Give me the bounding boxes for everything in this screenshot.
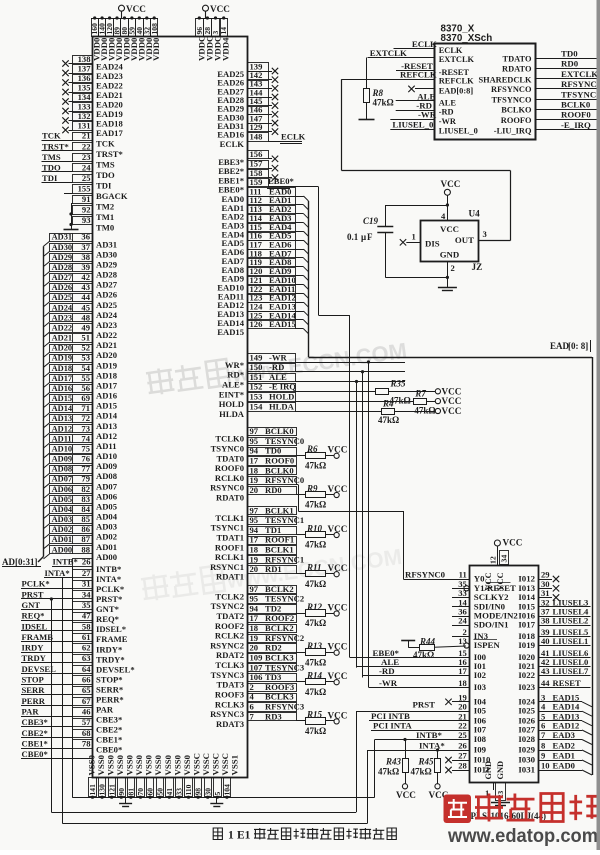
svg-text:-E IRQ: -E IRQ <box>269 382 296 392</box>
svg-text:AD03: AD03 <box>52 515 72 524</box>
U4 pin 1 with no-connect <box>406 242 420 244</box>
svg-text:ROOF1: ROOF1 <box>265 535 294 545</box>
pin 30 box <box>205 778 212 797</box>
svg-text:17: 17 <box>250 456 259 466</box>
svg-text:47k: 47k <box>373 98 387 108</box>
TD0 wire to R6 <box>296 455 306 457</box>
pin 109 BCLK3 <box>248 654 297 663</box>
pin 81 stub <box>130 796 132 797</box>
svg-text:EAD: EAD <box>550 341 570 351</box>
-RD vertical to ISPLSI <box>362 372 364 678</box>
pin 91 TM2 <box>73 196 93 204</box>
svg-text:PCI INTA: PCI INTA <box>373 720 412 730</box>
svg-text:95: 95 <box>250 594 259 604</box>
pin 70 box <box>137 778 145 797</box>
AD08 bus entry <box>44 473 50 478</box>
pin 41 box <box>166 778 174 797</box>
pin 113 EAD2 <box>248 206 296 214</box>
pin 64 DEVSEL* <box>73 666 93 674</box>
svg-text:TSYNC0: TSYNC0 <box>211 444 244 454</box>
svg-text:AD08: AD08 <box>52 465 72 474</box>
svg-text:TDAT1: TDAT1 <box>216 533 244 543</box>
AD03 bus entry <box>44 524 50 529</box>
svg-text:47k: 47k <box>305 687 319 697</box>
svg-text:EAD14: EAD14 <box>553 702 580 712</box>
svg-text:I017: I017 <box>518 620 535 630</box>
svg-text:AD28: AD28 <box>96 270 118 280</box>
pin 95 TESYNC0 <box>248 438 297 446</box>
svg-text:RD3: RD3 <box>265 711 282 721</box>
svg-text:78: 78 <box>82 738 91 748</box>
pin 69 AD15 <box>50 395 93 403</box>
resistor R15 <box>306 718 326 725</box>
svg-text:67: 67 <box>82 696 91 706</box>
svg-text:104: 104 <box>223 784 232 796</box>
svg-text:ALE*: ALE* <box>222 380 244 390</box>
VCC under R43 <box>402 784 407 789</box>
svg-text:64: 64 <box>82 664 91 674</box>
svg-text:20: 20 <box>250 643 259 653</box>
svg-text:AD14: AD14 <box>96 411 118 421</box>
svg-text:SERR*: SERR* <box>96 684 123 694</box>
svg-text:I030: I030 <box>518 755 535 765</box>
AD16 bus entry <box>44 393 50 398</box>
EBE0* net into ISPLSI <box>350 657 470 659</box>
svg-text:37: 37 <box>81 242 90 252</box>
svg-text:CBE3*: CBE3* <box>22 717 48 727</box>
svg-text:VCC: VCC <box>442 406 462 416</box>
svg-text:PRST*: PRST* <box>96 594 122 604</box>
svg-text:F: F <box>367 232 373 242</box>
svg-text:TDO: TDO <box>96 170 115 180</box>
svg-text:6: 6 <box>250 702 255 712</box>
pin 156 EBE3* <box>248 151 269 159</box>
svg-text:1: 1 <box>228 830 234 842</box>
svg-text:SHAREDCLK: SHAREDCLK <box>478 75 532 84</box>
pin 57 CBE3* <box>73 719 93 727</box>
pin 56 AD16 <box>50 385 93 393</box>
pin 119 EAD8 <box>248 259 296 267</box>
svg-text:48: 48 <box>81 312 90 322</box>
svg-text:TESYNC3: TESYNC3 <box>265 662 304 672</box>
svg-text:EAD1: EAD1 <box>553 751 575 761</box>
pin 43 AD26 <box>50 284 93 292</box>
svg-text:126: 126 <box>250 319 264 329</box>
pin 155 BGACK <box>73 185 93 194</box>
svg-text:Ω: Ω <box>319 579 326 589</box>
svg-text:VSSC: VSSC <box>201 753 211 776</box>
svg-text:ROOF2: ROOF2 <box>215 621 244 631</box>
PRST net vertical <box>51 599 53 812</box>
svg-text:GNT*: GNT* <box>96 604 119 614</box>
pin 152 -E IRQ <box>248 384 296 392</box>
U4 pin 2 GND wire <box>447 261 449 288</box>
svg-text:AD10: AD10 <box>96 451 117 461</box>
svg-text:47k: 47k <box>305 540 319 550</box>
svg-text:1: 1 <box>412 232 416 242</box>
svg-text:I02: I02 <box>474 670 487 680</box>
svg-text:R10: R10 <box>306 523 323 533</box>
svg-text:TM0: TM0 <box>96 223 114 233</box>
svg-text:AD02: AD02 <box>96 532 117 542</box>
pin 3 box <box>212 19 220 37</box>
VCC pull-up R6 <box>334 453 339 458</box>
EAD0 bus entry <box>582 770 592 775</box>
svg-text:VSSC: VSSC <box>220 753 230 776</box>
svg-text:18: 18 <box>250 545 259 555</box>
svg-text:TDI: TDI <box>42 173 58 183</box>
svg-text:95: 95 <box>250 515 259 525</box>
svg-text:VSS0: VSS0 <box>172 754 182 775</box>
pin 104 stub <box>226 796 228 797</box>
svg-text:22: 22 <box>82 141 91 151</box>
svg-text:INTA*: INTA* <box>419 741 445 751</box>
pin 93 TM0 <box>73 217 93 225</box>
AD05 bus entry <box>44 503 50 508</box>
svg-text:49: 49 <box>81 323 90 333</box>
svg-text:Ω: Ω <box>319 726 326 736</box>
pin 148 ECLK <box>248 133 269 142</box>
svg-text:EAD15: EAD15 <box>217 327 244 337</box>
pin 48 AD23 <box>50 314 93 322</box>
pin 26 INTB* <box>73 559 93 567</box>
pin 159 EBE0* <box>248 179 269 187</box>
svg-text:REQ*: REQ* <box>96 614 119 624</box>
svg-text:VCC: VCC <box>442 386 462 396</box>
pin 66 STOP* <box>73 676 93 685</box>
pin 21 TCK <box>73 133 93 141</box>
svg-text:70: 70 <box>136 788 145 796</box>
svg-text:ROOF0: ROOF0 <box>215 463 244 473</box>
pin 27 INTA* <box>73 570 93 578</box>
pin 52 AD20 <box>50 345 93 353</box>
pin 89 VDD0 box <box>114 19 121 37</box>
svg-text:SERR: SERR <box>22 685 46 695</box>
pin 24 TDO <box>73 164 93 172</box>
svg-text:8: 8 <box>541 741 546 751</box>
svg-text:HOLD: HOLD <box>269 392 294 402</box>
EAD1 bus entry <box>582 760 592 765</box>
svg-text:EAD24: EAD24 <box>96 62 123 72</box>
resistor R12 <box>306 610 326 617</box>
pin 37 AD30 <box>50 244 93 252</box>
pin 118 EAD7 <box>248 250 296 258</box>
pin 154 HLDA <box>248 403 296 412</box>
svg-text:17: 17 <box>250 613 259 623</box>
pin 92 TM1 <box>73 206 93 215</box>
svg-text:42: 42 <box>81 272 90 282</box>
pin 40 VDD0 box <box>136 19 144 37</box>
pin 142 EAD26 <box>248 72 269 80</box>
pin 129 EAD16 <box>248 124 269 132</box>
svg-text:23: 23 <box>82 152 91 162</box>
svg-text:14: 14 <box>219 27 228 35</box>
pin 121 stub <box>111 796 113 797</box>
pin 67 PERR* <box>73 698 93 706</box>
pin 134 EAD20 <box>73 94 93 102</box>
VCC pull-up R13 <box>334 650 339 655</box>
AD31 bus entry <box>44 241 50 246</box>
svg-text:46: 46 <box>82 707 91 717</box>
EBE0 net staircase jog <box>318 187 320 316</box>
INTB net bottom run <box>72 797 375 799</box>
svg-text:AD22: AD22 <box>52 324 72 333</box>
svg-text:AD23: AD23 <box>52 313 72 322</box>
gray watermark ECCN lower <box>141 540 404 605</box>
svg-text:VSS0: VSS0 <box>125 754 135 775</box>
svg-text:RFSYNC0: RFSYNC0 <box>405 569 446 579</box>
svg-text:8370_XSch: 8370_XSch <box>441 33 493 44</box>
svg-text:R9: R9 <box>306 483 318 493</box>
svg-text:31: 31 <box>82 579 91 589</box>
U4 pin 3 OUT wire <box>479 240 511 242</box>
svg-text:7: 7 <box>541 730 546 740</box>
svg-text:47k: 47k <box>414 405 428 415</box>
AD19 bus entry <box>44 362 50 367</box>
svg-text:47k: 47k <box>305 657 319 667</box>
pin 140 VDD0 box <box>99 19 106 37</box>
svg-text:VSS0: VSS0 <box>153 754 163 775</box>
svg-text:25: 25 <box>82 173 91 183</box>
svg-text:μ: μ <box>361 232 366 242</box>
pin 120 EAD9 <box>248 268 296 276</box>
svg-text:47k: 47k <box>413 650 427 660</box>
EAD10 bus entry <box>295 284 304 286</box>
-E IRQ wire to R35 <box>295 391 376 393</box>
svg-text:R8: R8 <box>372 88 384 98</box>
pin 150 -RD <box>248 364 296 372</box>
INTB* net into ISPLSI <box>374 740 376 798</box>
svg-text:AD24: AD24 <box>96 310 118 320</box>
VCC bus line right group <box>196 18 228 20</box>
svg-text:25: 25 <box>458 730 467 740</box>
svg-text:AD25: AD25 <box>52 293 72 302</box>
pin 146 EAD30 <box>248 107 269 115</box>
svg-text:93: 93 <box>82 215 91 225</box>
svg-text:66: 66 <box>82 675 91 685</box>
TD2 wire to R12 <box>296 613 306 615</box>
pin 94 TD0 <box>248 448 297 456</box>
svg-text:ECLK: ECLK <box>281 131 306 141</box>
svg-text:R14: R14 <box>306 671 323 681</box>
svg-text:47k: 47k <box>305 579 319 589</box>
svg-text:[0:31]: [0:31] <box>15 557 38 567</box>
pin 23 TMS <box>73 154 93 162</box>
pin 54 AD18 <box>50 365 93 373</box>
AD13 bus entry <box>44 423 50 428</box>
svg-text:-WR: -WR <box>269 352 287 362</box>
svg-text:HOLD: HOLD <box>219 399 244 409</box>
svg-text:AD00: AD00 <box>96 552 117 562</box>
svg-text:24: 24 <box>458 616 467 626</box>
svg-text:10: 10 <box>541 761 550 771</box>
svg-text:97: 97 <box>250 505 259 515</box>
pin 83 AD05 <box>50 496 93 504</box>
HOLD wire to R7 <box>295 401 413 403</box>
svg-text:7: 7 <box>250 711 255 721</box>
ALE net into ISPLSI <box>357 666 470 668</box>
svg-text:4: 4 <box>541 702 546 712</box>
svg-text:AD: AD <box>2 557 15 567</box>
svg-text:EINT*: EINT* <box>219 389 244 399</box>
svg-text:HLDA: HLDA <box>269 401 295 411</box>
svg-text:I019: I019 <box>518 640 535 650</box>
pin 44 AD25 <box>50 294 93 302</box>
svg-text:AD11: AD11 <box>52 434 72 443</box>
pin 6 RFSYNC3 <box>248 703 297 712</box>
EAD12 bus entry <box>582 730 592 735</box>
svg-text:18: 18 <box>458 678 467 688</box>
svg-text:VCC: VCC <box>328 484 348 494</box>
svg-text:Ω: Ω <box>319 687 326 697</box>
pin 33 stub <box>178 796 180 797</box>
svg-text:IDSEL: IDSEL <box>22 621 48 631</box>
gray watermark ECCN middle <box>146 334 409 399</box>
svg-text:AD09: AD09 <box>96 461 117 471</box>
pin 137 EAD23 <box>73 65 93 74</box>
svg-text:VSS1: VSS1 <box>230 755 240 776</box>
svg-text:INTA*: INTA* <box>45 568 70 578</box>
pin 98 stub <box>198 796 200 797</box>
EAD14 bus entry <box>295 319 304 321</box>
svg-text:Ω: Ω <box>387 98 394 108</box>
svg-text:AD12: AD12 <box>52 424 72 433</box>
pin 130 box <box>99 778 106 797</box>
svg-text:EAD18: EAD18 <box>96 119 123 129</box>
AD12 bus entry <box>44 433 50 438</box>
resistor R6 <box>306 453 326 459</box>
svg-text:74: 74 <box>81 433 90 443</box>
svg-text:AD01: AD01 <box>52 535 72 544</box>
svg-text:2: 2 <box>250 682 254 692</box>
svg-text:AD26: AD26 <box>52 283 72 292</box>
pin CBE0* <box>21 758 93 760</box>
VCC pull-up R4 <box>435 408 440 413</box>
pin 18 BCLK1 <box>248 546 297 555</box>
svg-text:TD1: TD1 <box>265 525 281 535</box>
svg-text:VSS0: VSS0 <box>144 754 154 775</box>
svg-text:I022: I022 <box>518 670 535 680</box>
pin 121 box <box>109 778 116 797</box>
svg-text:106: 106 <box>250 672 264 682</box>
svg-text:BCLK0: BCLK0 <box>265 426 294 436</box>
svg-text:EAD2: EAD2 <box>553 741 575 751</box>
pin 20 RD1 <box>248 566 297 574</box>
svg-text:AD21: AD21 <box>52 334 72 343</box>
svg-text:2: 2 <box>451 263 455 273</box>
svg-text:AD04: AD04 <box>52 505 73 514</box>
svg-text:21: 21 <box>82 131 91 141</box>
svg-text:27: 27 <box>82 568 91 578</box>
pin 41 stub <box>169 796 171 797</box>
svg-text:EAD17: EAD17 <box>96 128 123 138</box>
svg-text:9: 9 <box>541 751 545 761</box>
svg-text:R44: R44 <box>419 637 436 647</box>
svg-text:97: 97 <box>250 584 259 594</box>
svg-text:95: 95 <box>250 436 259 446</box>
svg-text:AD26: AD26 <box>96 290 118 300</box>
pin 79 AD07 <box>50 476 93 484</box>
svg-text:47: 47 <box>82 611 91 621</box>
svg-text:87: 87 <box>81 534 90 544</box>
svg-text:TMS: TMS <box>96 159 115 169</box>
svg-text:43: 43 <box>81 282 90 292</box>
svg-text:54: 54 <box>81 363 90 373</box>
svg-text:PERR: PERR <box>22 696 46 706</box>
pin 136 EAD22 <box>73 75 93 83</box>
svg-text:-RD: -RD <box>439 108 454 117</box>
pin 145 EAD29 <box>248 98 269 106</box>
resistor R44 <box>401 640 415 642</box>
svg-text:72: 72 <box>81 413 90 423</box>
svg-text:EAD0: EAD0 <box>553 761 575 771</box>
svg-text:TESYNC0: TESYNC0 <box>265 436 304 446</box>
svg-text:ECLK: ECLK <box>220 139 245 149</box>
svg-text:BCLK0: BCLK0 <box>265 465 294 475</box>
VCC symbol top right <box>205 11 207 18</box>
-WR vertical to ISPLSI <box>368 362 370 687</box>
pin 20 RD0 <box>248 487 297 495</box>
svg-text:VCC: VCC <box>126 4 146 14</box>
svg-text:FRAMB: FRAMB <box>22 632 54 642</box>
svg-text:EXTCLK: EXTCLK <box>439 55 475 64</box>
AD04 bus entry <box>44 514 50 519</box>
svg-text:LIUSEL_0: LIUSEL_0 <box>439 127 478 136</box>
svg-text:R45: R45 <box>418 757 435 767</box>
pin 47 REQ* <box>73 613 93 621</box>
svg-text:AD17: AD17 <box>96 381 118 391</box>
svg-text:AD29: AD29 <box>52 253 72 262</box>
svg-text:153: 153 <box>250 392 263 402</box>
pin 81 box <box>128 778 135 797</box>
pin 122 EAD11 <box>248 286 296 294</box>
INTA net bottom run <box>62 823 367 825</box>
svg-text:INTB*: INTB* <box>53 557 78 567</box>
svg-text:TCK: TCK <box>42 131 61 141</box>
svg-text:Ω: Ω <box>425 767 432 777</box>
pin 90 box <box>118 778 126 797</box>
svg-text:VCC: VCC <box>328 445 348 455</box>
svg-text:ECLK: ECLK <box>412 39 437 49</box>
AD00 bus entry <box>44 554 50 559</box>
pin 85 AD03 <box>50 516 93 524</box>
svg-text:Ω: Ω <box>319 618 326 628</box>
pin 71 AD14 <box>50 405 93 413</box>
svg-text:BCLK2: BCLK2 <box>265 623 294 633</box>
svg-text:AD30: AD30 <box>52 243 72 252</box>
pin 19 RFSYNC2 <box>248 635 297 643</box>
svg-text:19: 19 <box>250 475 259 485</box>
pin 107 TESYNC3 <box>248 664 297 672</box>
pin 117 EAD6 <box>248 241 296 250</box>
VCC pull-up R9 <box>334 492 339 497</box>
pin 65 SERR* <box>73 687 93 695</box>
RD3 wire to R15 <box>296 720 306 722</box>
svg-text:SDO/IN1: SDO/IN1 <box>474 620 509 630</box>
svg-text:136: 136 <box>78 73 92 83</box>
svg-text:4: 4 <box>250 692 255 702</box>
svg-text:83: 83 <box>81 494 90 504</box>
svg-text:24: 24 <box>82 162 91 172</box>
AD17 bus entry <box>44 382 50 387</box>
pin 68 CBE2* <box>73 730 93 738</box>
AD15 bus entry <box>44 403 50 408</box>
RD1 wire to R11 <box>296 573 306 575</box>
svg-text:TM1: TM1 <box>96 212 114 222</box>
svg-text:AD18: AD18 <box>96 370 118 380</box>
svg-text:DIS: DIS <box>425 239 440 249</box>
EAD15 bus entry <box>295 328 304 330</box>
